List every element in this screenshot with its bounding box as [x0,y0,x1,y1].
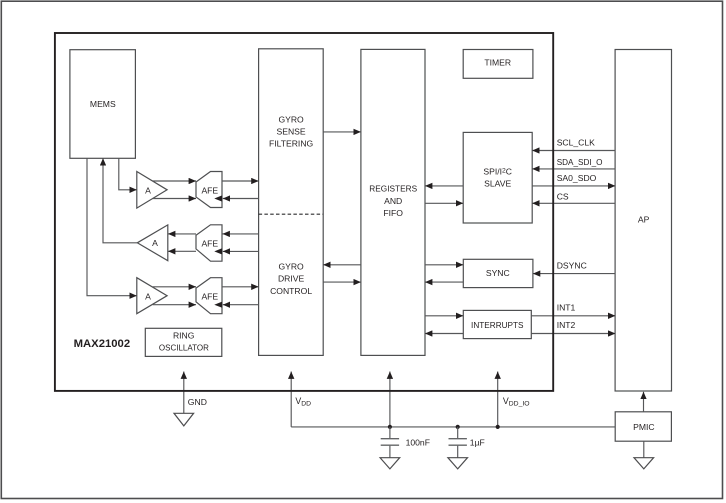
wire SDA_SDI_O [532,168,615,170]
svg-text:SLAVE: SLAVE [484,179,511,189]
capacitor C1 100nF [381,427,430,458]
svg-text:AFE: AFE [201,292,218,302]
block AP [615,50,671,392]
svg-text:CS: CS [557,192,569,202]
svg-text:CONTROL: CONTROL [270,286,312,296]
wire MEMS to A1 [119,158,137,190]
node junction dot 1 [388,425,392,429]
wire AFE1 to GYRO SENSE [222,180,259,182]
svg-text:DSYNC: DSYNC [557,261,587,271]
svg-text:SPI/I2C: SPI/I2C [483,167,512,177]
op-amp A3 [137,278,167,314]
wire GYRO DRIVE to REGISTERS [323,281,361,283]
block SYNC [463,259,533,287]
wire PMIC to AP [643,392,645,412]
wire AFE2 to A2 bottom [168,250,196,252]
svg-text:SYNC: SYNC [486,268,510,278]
svg-text:A: A [152,238,158,248]
ground symbol PMIC [634,458,654,469]
AFE block 1 [196,172,222,208]
wire supply stem mid [389,372,391,427]
wire A1 to AFE1 top [153,180,196,182]
svg-text:AFE: AFE [201,238,218,248]
svg-text:PMIC: PMIC [633,422,654,432]
svg-text:OSCILLATOR: OSCILLATOR [159,342,209,352]
wire PMIC ground stem [643,441,645,458]
wire GYRO DRIVE to AFE3 [223,304,259,306]
inner arrowhead AFE2 return [214,248,222,254]
svg-text:1µF: 1µF [470,438,485,448]
svg-text:REGISTERS: REGISTERS [369,184,417,194]
svg-text:FIFO: FIFO [383,208,403,218]
svg-text:GYRO: GYRO [278,114,304,124]
inner arrowhead AFE1 return [214,195,222,201]
wire CS [532,202,615,204]
svg-text:INT1: INT1 [557,303,576,313]
wire INTERRUPTS to REGISTERS [425,333,463,335]
svg-text:FILTERING: FILTERING [269,139,314,149]
svg-text:A: A [145,185,151,195]
wire REGISTERS to INTERRUPTS [425,315,463,317]
ground symbol C2 [448,458,468,469]
svg-text:SDA_SDI_O: SDA_SDI_O [557,157,603,167]
svg-text:DRIVE: DRIVE [278,274,305,284]
wire SA0_SDO [532,185,615,187]
svg-text:INTERRUPTS: INTERRUPTS [471,320,524,330]
wire VDD bus [291,426,615,428]
svg-text:TIMER: TIMER [484,57,511,67]
svg-text:A: A [145,292,151,302]
node junction dot 2 [456,425,460,429]
svg-text:RING: RING [173,331,195,341]
op-amp A2 [137,225,168,261]
wire A3 to AFE3 bottom [153,304,196,306]
wire GYRO DRIVE to AFE2 bottom [223,250,259,252]
wire MEMS to A3 [87,158,137,296]
chip boundary MAX21002 [55,33,553,391]
wire VDD stem [290,372,292,427]
ground symbol GND [174,413,194,426]
wire SYNC to REGISTERS [425,281,463,283]
wire REGISTERS to SYNC [425,264,463,266]
wire VDD_IO stem [497,372,499,427]
AFE block 3 [196,278,222,314]
block MEMS [70,50,135,159]
svg-text:INT2: INT2 [557,320,576,330]
svg-text:SCL_CLK: SCL_CLK [557,138,595,148]
wire REGISTERS to SPI [425,202,463,204]
wire INT1 [531,315,615,317]
node junction dot 3 [496,425,500,429]
inner arrowhead AFE3 return [214,302,222,308]
wire GYRO DRIVE to AFE2 top [223,233,259,235]
wire GYRO SENSE to AFE1 [223,198,259,200]
block GYRO SENSE FILTERING / GYRO DRIVE CONTROL [259,49,324,356]
wire AFE2 to A2 top [168,233,196,235]
wire A3 to AFE3 top [153,286,196,288]
block RING OSCILLATOR [145,328,222,356]
svg-text:GYRO: GYRO [278,262,304,272]
AFE block 2 [196,225,222,261]
svg-text:MEMS: MEMS [90,99,116,109]
block PMIC [615,412,671,441]
svg-text:AFE: AFE [201,186,218,196]
svg-text:100nF: 100nF [406,438,430,448]
wire A1 to AFE1 bottom [153,198,196,200]
op-amp A1 [137,172,167,209]
block INTERRUPTS [463,310,531,338]
block SPI/I2C SLAVE [463,132,532,223]
wire A2 to MEMS [103,158,137,243]
svg-text:AP: AP [638,215,650,225]
capacitor C2 1uF [449,427,485,458]
wire SCL_CLK [532,150,615,152]
wire INT2 [531,333,615,335]
ground symbol C1 [380,458,400,469]
svg-text:AND: AND [384,196,402,206]
wire GND stem [183,372,185,414]
block REGISTERS AND FIFO [361,49,425,355]
wire REGISTERS to GYRO DRIVE [323,264,361,266]
wire GYRO SENSE to REGISTERS [323,131,361,133]
wire SPI to REGISTERS [425,185,463,187]
svg-text:MAX21002: MAX21002 [74,338,131,350]
wire AFE3 to GYRO DRIVE [222,286,259,288]
block TIMER [463,50,533,79]
svg-text:GND: GND [188,397,207,407]
svg-text:SA0_SDO: SA0_SDO [557,173,597,183]
svg-text:SENSE: SENSE [277,127,306,137]
wire DSYNC [533,273,616,275]
